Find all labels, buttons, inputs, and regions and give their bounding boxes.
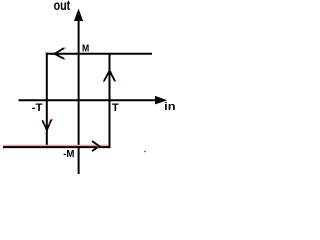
- stray speck: [144, 151, 145, 152]
- x-axis (in) shaft: [19, 99, 159, 101]
- right arrow on -M line: [92, 141, 99, 151]
- svg-text:M: M: [82, 44, 89, 55]
- svg-text:-M: -M: [63, 149, 74, 160]
- up arrow on right branch: [103, 71, 116, 83]
- y-axis arrowhead: [74, 9, 83, 22]
- x-axis arrowhead: [155, 96, 167, 105]
- down arrow on left branch: [42, 119, 52, 131]
- svg-text:out: out: [54, 0, 71, 13]
- corner artifact pixel: [45, 52, 46, 53]
- left branch at -T: [46, 53, 48, 148]
- -M level line (bottom): [3, 146, 111, 148]
- -M red underline: [3, 144, 110, 146]
- y-axis (out) shaft: [78, 18, 80, 174]
- left arrow on M line: [54, 48, 66, 60]
- svg-text:-T: -T: [32, 102, 43, 114]
- M level line (top): [46, 53, 152, 55]
- right branch at T: [109, 54, 111, 148]
- svg-text:T: T: [112, 102, 119, 114]
- svg-text:in: in: [164, 101, 176, 113]
